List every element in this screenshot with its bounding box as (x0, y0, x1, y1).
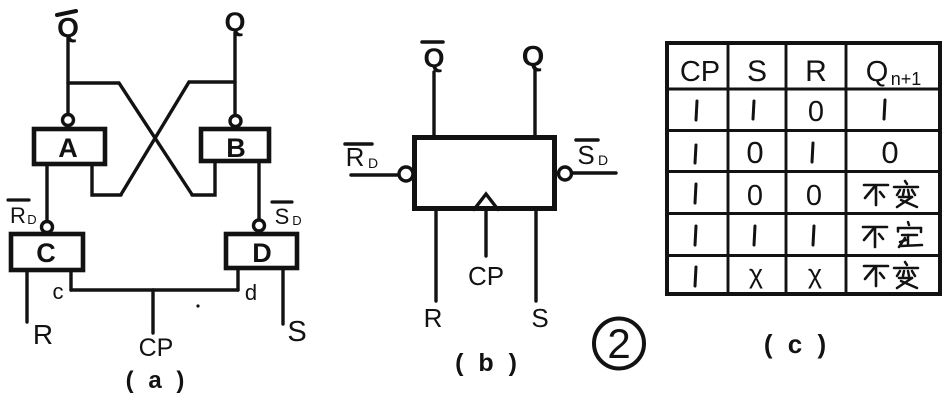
svg-text:S: S (287, 316, 306, 348)
svg-text:( c ): ( c ) (764, 329, 830, 359)
svg-text:D: D (27, 212, 36, 227)
svg-text:R: R (346, 142, 365, 172)
svg-text:D: D (252, 238, 272, 268)
svg-text:D: D (292, 213, 301, 228)
svg-text:D: D (368, 155, 378, 171)
svg-text:CP: CP (139, 334, 174, 362)
svg-text:n+1: n+1 (891, 69, 922, 89)
svg-text:Q: Q (423, 43, 444, 73)
svg-text:0: 0 (747, 180, 763, 212)
svg-text:R: R (10, 203, 26, 228)
svg-text:( b ): ( b ) (455, 349, 521, 377)
svg-text:χ: χ (808, 259, 822, 289)
svg-text:Q: Q (522, 41, 545, 73)
svg-text:CP: CP (680, 56, 720, 88)
svg-text:Q: Q (57, 12, 79, 43)
svg-text:S: S (275, 204, 290, 229)
svg-text:R: R (805, 55, 827, 88)
svg-text:c: c (53, 279, 64, 304)
svg-text:0: 0 (881, 135, 898, 170)
svg-text:S: S (747, 55, 767, 88)
svg-text:Q: Q (224, 7, 245, 37)
svg-text:S: S (531, 303, 548, 333)
svg-text:D: D (598, 152, 608, 168)
svg-text:B: B (226, 133, 246, 163)
svg-text:0: 0 (746, 135, 763, 170)
svg-text:R: R (424, 303, 443, 333)
svg-text:d: d (245, 280, 257, 305)
svg-text:Q: Q (866, 56, 889, 88)
svg-text:C: C (36, 238, 56, 268)
svg-text:R: R (33, 319, 53, 350)
svg-text:A: A (58, 133, 78, 163)
svg-text:χ: χ (749, 259, 763, 289)
svg-text:CP: CP (468, 261, 504, 291)
svg-text:S: S (577, 140, 594, 170)
svg-text:( a ): ( a ) (126, 367, 189, 393)
svg-text:2: 2 (607, 320, 630, 367)
svg-text:0: 0 (806, 180, 822, 212)
svg-text:0: 0 (808, 96, 824, 128)
